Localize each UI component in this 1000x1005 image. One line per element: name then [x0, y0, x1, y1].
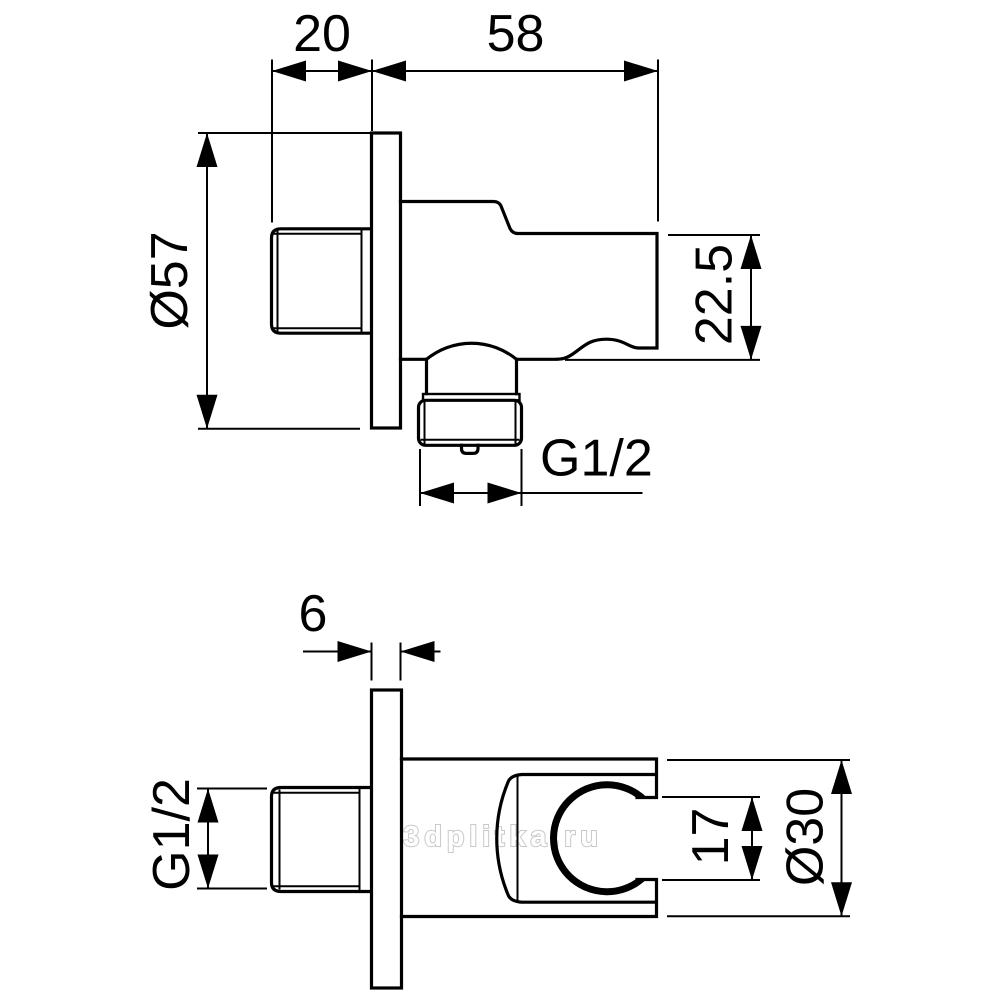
svg-text:20: 20: [293, 5, 351, 63]
svg-text:6: 6: [299, 585, 328, 643]
svg-text:17: 17: [682, 808, 740, 866]
svg-text:G1/2: G1/2: [143, 778, 201, 891]
svg-text:G1/2: G1/2: [540, 430, 653, 488]
svg-text:58: 58: [487, 5, 545, 63]
svg-text:3dplitka.ru: 3dplitka.ru: [403, 821, 602, 853]
svg-text:22.5: 22.5: [686, 244, 744, 345]
svg-text:Ø30: Ø30: [777, 788, 835, 886]
svg-text:Ø57: Ø57: [141, 231, 199, 329]
